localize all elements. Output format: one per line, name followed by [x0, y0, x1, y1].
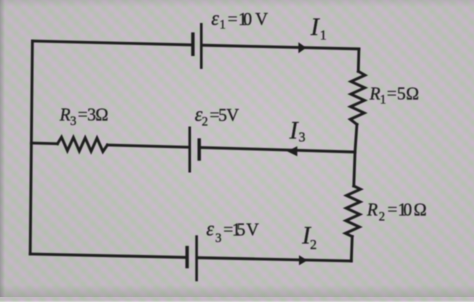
wire bottom branch right segment: [198, 258, 351, 261]
wire top branch right segment: [203, 45, 359, 49]
svg-text:R2=10Ω: R2=10Ω: [366, 199, 427, 223]
battery EMF1 short negative plate: [191, 32, 194, 56]
battery EMF2 long positive plate: [188, 127, 191, 173]
current arrow I1: [298, 42, 306, 53]
svg-text:I1: I1: [310, 14, 327, 42]
current arrow I2: [299, 255, 308, 265]
wire middle branch left lead: [31, 142, 57, 145]
resistor R2: [345, 186, 360, 237]
wire right rail node a to R1: [357, 49, 360, 72]
wire top branch left segment: [32, 41, 191, 45]
svg-text:R3=3Ω: R3=3Ω: [59, 105, 109, 128]
battery EMF3 short negative plate: [185, 246, 188, 268]
resistor R3: [58, 137, 108, 151]
current arrow I3: [287, 146, 297, 156]
svg-text:ε3=15V: ε3=15V: [206, 219, 259, 245]
wire left rail: [30, 41, 32, 254]
battery EMF1 long positive plate: [200, 23, 203, 69]
svg-text:I3: I3: [289, 117, 306, 144]
wire bottom branch left segment: [30, 254, 186, 257]
battery EMF2 short negative plate: [197, 138, 200, 160]
wire middle branch R3 to battery 2: [107, 145, 188, 147]
resistor R1: [350, 71, 365, 124]
wire middle branch battery 2 to junction: [201, 148, 355, 153]
svg-text:ε2=5V: ε2=5V: [195, 105, 240, 129]
svg-text:R1=5Ω: R1=5Ω: [369, 84, 419, 107]
svg-text:I2: I2: [301, 223, 317, 252]
battery EMF3 long positive plate: [195, 235, 198, 281]
wire right rail R1 to middle junction: [355, 124, 357, 152]
wire right rail R2 to bottom corner: [350, 237, 354, 262]
wire right rail junction to R2: [354, 152, 355, 186]
svg-text:ε1=10V: ε1=10V: [211, 9, 268, 31]
